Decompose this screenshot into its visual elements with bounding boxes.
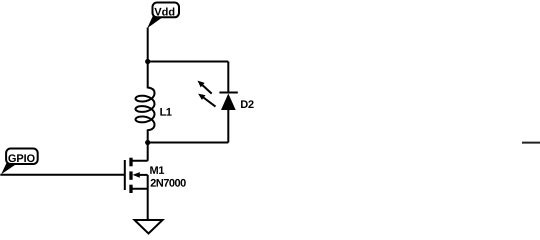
wire bottom horizontal bbox=[148, 142, 229, 144]
wire GPIO to gate bbox=[0, 174, 125, 176]
inductor L1 bbox=[136, 62, 155, 143]
transistor M1 channel bar top bbox=[129, 158, 132, 167]
wire LED branch bottom bbox=[227, 110, 229, 143]
transistor M1 gate line bbox=[124, 160, 126, 190]
power flag Vdd bbox=[147, 3, 179, 29]
label M1 bbox=[150, 166, 164, 174]
transistor M1 source stub bbox=[131, 188, 148, 190]
wire source vertical bbox=[147, 175, 149, 220]
wire drain vertical bbox=[147, 143, 149, 161]
ground bbox=[135, 220, 163, 234]
label 2N7000 bbox=[151, 179, 186, 187]
transistor M1 body arrow bbox=[133, 172, 148, 178]
LED D2 triangle bbox=[221, 94, 236, 111]
label D2 bbox=[241, 100, 254, 108]
transistor M1 drain stub bbox=[131, 160, 148, 162]
wire top horizontal bbox=[148, 61, 229, 63]
LED D2 cathode bar bbox=[219, 92, 237, 94]
LED D2 light arrow 2 bbox=[198, 94, 215, 107]
label L1 bbox=[160, 108, 171, 116]
transistor M1 channel bar middle bbox=[129, 171, 132, 179]
wire Vdd to top node bbox=[147, 28, 149, 62]
wire LED branch top bbox=[227, 62, 229, 93]
input flag GPIO bbox=[1, 149, 38, 175]
stray wire segment at right edge bbox=[522, 142, 540, 144]
LED D2 light arrow 1 bbox=[198, 81, 212, 94]
node junction bottom bbox=[145, 140, 150, 145]
node junction top bbox=[145, 59, 150, 64]
transistor M1 channel bar bottom bbox=[129, 185, 132, 193]
